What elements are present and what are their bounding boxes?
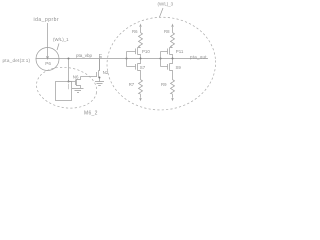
svg-text:R7: R7	[129, 82, 135, 87]
junction dot box branch	[68, 58, 70, 60]
transistor N6 source lead	[77, 86, 81, 89]
transistor P11 channel	[169, 48, 171, 55]
P6 internal drain line	[47, 48, 49, 56]
transistor P6 (circle symbol)	[36, 48, 59, 71]
transistor N2 drain lead	[99, 59, 100, 71]
svg-text:R8: R8	[164, 29, 170, 34]
transistor N2 channel	[98, 71, 100, 78]
transistor S9 gate bar	[167, 64, 169, 70]
svg-text:R9: R9	[161, 82, 167, 87]
right gate stub	[160, 52, 162, 67]
wire from ida_pprbr down to P6	[47, 23, 49, 48]
svg-text:S9: S9	[176, 65, 182, 70]
box block	[56, 82, 72, 101]
svg-text:(W/L)_1: (W/L)_1	[53, 37, 69, 42]
leader line (W/L)_3 to ellipse	[160, 8, 164, 17]
transistor N2 source lead	[99, 78, 100, 82]
transistor S7 gate lead	[127, 66, 136, 68]
resistor R7	[139, 80, 143, 95]
transistor P10 channel	[137, 48, 139, 55]
dashed group ellipse W/L_3	[104, 14, 218, 113]
svg-text:M6_2: M6_2	[84, 111, 98, 117]
junction dot on box top	[68, 81, 70, 83]
junction dot left gate stub	[126, 58, 128, 60]
transistor P10 drain source leads	[138, 48, 141, 59]
transistor N6 channel	[76, 79, 78, 86]
transistor S7 channel	[137, 64, 139, 71]
transistor N6 drain lead	[77, 77, 81, 80]
svg-text:R6: R6	[132, 29, 138, 34]
transistor P10 gate lead	[127, 51, 136, 53]
transistor N2 gate bar	[96, 72, 98, 77]
main horizontal wire pta_vbp	[36, 58, 209, 60]
ground under N2	[95, 82, 104, 86]
junction dot N2 source	[99, 77, 101, 79]
junction dot right gate stub	[160, 58, 162, 60]
svg-text:pta_out: pta_out	[190, 55, 207, 60]
transistor P11 gate bar	[167, 49, 169, 55]
svg-text:N6: N6	[73, 74, 79, 79]
transistor S7 gate bar	[135, 64, 137, 70]
down arrow left branch	[140, 94, 142, 98]
dashed group ellipse M6_2	[34, 63, 100, 112]
transistor N6 gate bar	[75, 80, 77, 86]
up arrow left branch	[140, 27, 142, 33]
wire N6 drain to N2 gate	[81, 76, 97, 78]
transistor P10 gate bar	[135, 49, 137, 55]
leader line (W/L)_1 to P6	[57, 44, 59, 51]
P6 internal arrowhead	[46, 56, 49, 60]
down arrow right branch	[172, 94, 174, 98]
resistor R9	[171, 80, 175, 95]
up arrow right branch	[172, 27, 174, 33]
svg-text:P11: P11	[176, 49, 184, 54]
transistor P11 gate lead	[161, 51, 168, 53]
resistor R6	[139, 33, 143, 48]
box inner mark	[68, 84, 70, 90]
svg-text:P10: P10	[142, 49, 150, 54]
svg-text:(W/L)_3: (W/L)_3	[158, 2, 174, 7]
svg-text:pta_vbp: pta_vbp	[76, 53, 93, 58]
junction dot left drain	[140, 58, 142, 60]
transistor S7 drain source leads	[138, 59, 141, 80]
transistor N6 gate wire	[69, 81, 76, 83]
resistor R8	[171, 33, 175, 48]
svg-text:pta_det(3:1): pta_det(3:1)	[3, 58, 31, 63]
wire from main wire down to box	[68, 59, 70, 82]
wire main wire down to N2	[99, 59, 101, 71]
transistor S9 channel	[169, 64, 171, 71]
svg-text:P6: P6	[45, 61, 51, 66]
left gate stub	[126, 52, 128, 67]
junction dot right drain	[172, 58, 174, 60]
ground under N6	[72, 89, 84, 93]
transistor S9 drain source leads	[170, 59, 173, 80]
transistor S9 gate lead	[161, 66, 168, 68]
transistor P11 drain source leads	[170, 48, 173, 59]
svg-text:S7: S7	[140, 65, 146, 70]
svg-text:ida_pprbr: ida_pprbr	[34, 17, 60, 23]
